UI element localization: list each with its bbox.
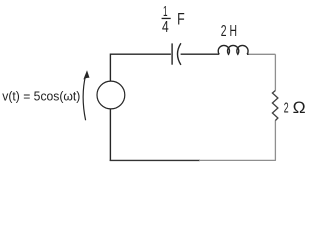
svg-text:2 H: 2 H [221,23,237,40]
svg-text:1: 1 [163,3,168,20]
svg-text:2: 2 [284,99,289,116]
svg-text:F: F [177,10,185,29]
svg-text:4: 4 [162,19,169,36]
svg-text:v(t) = 5cos(ωt): v(t) = 5cos(ωt) [2,89,80,103]
svg-text:Ω: Ω [293,98,306,117]
